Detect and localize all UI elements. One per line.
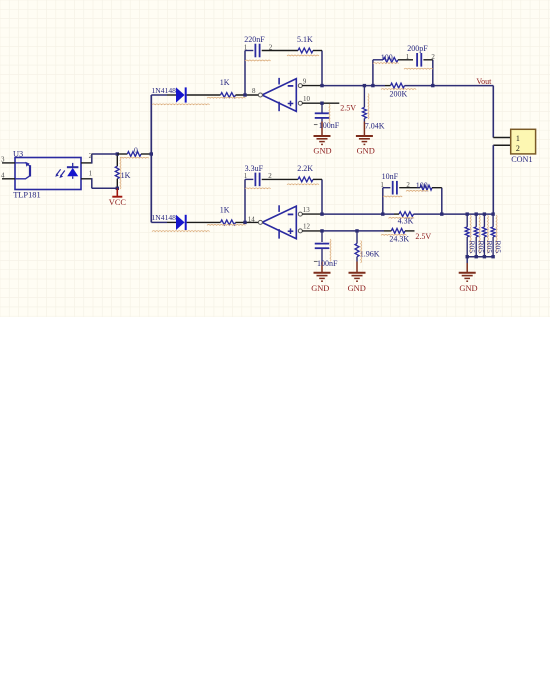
svg-text:2: 2 bbox=[268, 172, 272, 180]
svg-text:13: 13 bbox=[303, 206, 311, 214]
svg-text:8: 8 bbox=[252, 87, 256, 95]
svg-text:2: 2 bbox=[269, 43, 273, 51]
svg-text:14: 14 bbox=[248, 216, 256, 224]
svg-text:2: 2 bbox=[406, 181, 410, 189]
svg-text:1.96K: 1.96K bbox=[360, 249, 380, 258]
svg-text:200pF: 200pF bbox=[407, 44, 428, 53]
svg-text:12: 12 bbox=[303, 223, 311, 231]
svg-text:100nF: 100nF bbox=[317, 259, 338, 268]
svg-text:1: 1 bbox=[516, 134, 520, 143]
svg-text:1K: 1K bbox=[220, 78, 230, 87]
svg-text:1K: 1K bbox=[220, 205, 230, 214]
svg-text:5.1K: 5.1K bbox=[297, 35, 313, 44]
svg-text:220nF: 220nF bbox=[244, 35, 265, 44]
svg-text:3.3uF: 3.3uF bbox=[245, 164, 264, 173]
svg-text:U3: U3 bbox=[13, 149, 23, 158]
svg-text:R05: R05 bbox=[494, 241, 503, 254]
svg-text:200K: 200K bbox=[390, 89, 408, 98]
svg-text:100: 100 bbox=[381, 53, 393, 62]
svg-text:TLP181: TLP181 bbox=[13, 191, 40, 200]
svg-text:4: 4 bbox=[1, 172, 5, 180]
svg-text:GND: GND bbox=[348, 284, 366, 293]
svg-text:3: 3 bbox=[1, 156, 5, 164]
svg-text:R05: R05 bbox=[468, 241, 477, 254]
svg-text:CON1: CON1 bbox=[511, 155, 532, 164]
svg-text:VCC: VCC bbox=[109, 198, 127, 207]
svg-text:1: 1 bbox=[380, 181, 384, 189]
svg-text:2.5V: 2.5V bbox=[340, 103, 356, 112]
svg-text:R05: R05 bbox=[477, 241, 486, 254]
svg-text:24.3K: 24.3K bbox=[389, 234, 409, 243]
svg-text:1: 1 bbox=[89, 170, 93, 178]
svg-text:10nF: 10nF bbox=[382, 172, 399, 181]
svg-text:GND: GND bbox=[313, 146, 331, 155]
svg-text:GND: GND bbox=[311, 284, 329, 293]
svg-text:2.5V: 2.5V bbox=[415, 232, 431, 241]
svg-text:2.2K: 2.2K bbox=[297, 164, 313, 173]
svg-text:1: 1 bbox=[244, 43, 248, 51]
svg-text:1N4148: 1N4148 bbox=[152, 86, 177, 95]
svg-text:0: 0 bbox=[134, 145, 138, 154]
svg-text:2: 2 bbox=[89, 152, 93, 160]
svg-text:R05: R05 bbox=[485, 241, 494, 254]
svg-text:Vout: Vout bbox=[476, 77, 492, 86]
svg-text:2: 2 bbox=[516, 144, 520, 153]
svg-text:1N4148: 1N4148 bbox=[152, 213, 177, 222]
svg-text:GND: GND bbox=[357, 146, 375, 155]
svg-text:7.04K: 7.04K bbox=[365, 121, 385, 130]
svg-text:100: 100 bbox=[416, 181, 428, 190]
svg-text:10: 10 bbox=[303, 95, 311, 103]
svg-text:1K: 1K bbox=[121, 171, 131, 180]
svg-text:9: 9 bbox=[303, 77, 307, 85]
svg-text:1: 1 bbox=[244, 172, 248, 180]
svg-text:GND: GND bbox=[459, 284, 477, 293]
svg-text:2: 2 bbox=[431, 53, 435, 61]
svg-text:1: 1 bbox=[406, 53, 410, 61]
